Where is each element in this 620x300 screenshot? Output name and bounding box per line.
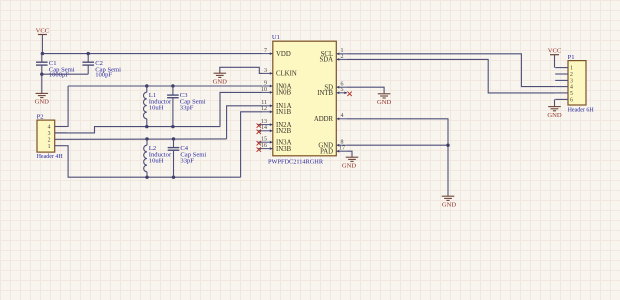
U1 pin 4 ADDR [314, 113, 346, 123]
svg-text:SDA: SDA [319, 57, 333, 64]
P1 pin 5 [555, 91, 573, 97]
ground GND (ADDR) [442, 196, 457, 208]
capacitor C1 [36, 54, 75, 79]
U1 pin 12 IN1B [261, 106, 292, 116]
svg-text:1: 1 [570, 66, 573, 72]
wire VCC rail to VDD pin 7 [42, 53, 262, 55]
svg-text:2: 2 [48, 137, 51, 143]
svg-text:16: 16 [261, 143, 267, 149]
no-connect X pin 13 [257, 123, 261, 127]
no-connect X pin 14 [257, 130, 261, 134]
U1 pin 13 IN2A [258, 119, 291, 129]
svg-text:PAD: PAD [320, 149, 333, 156]
junction C3 top [171, 84, 174, 87]
svg-text:13: 13 [261, 119, 267, 125]
wire GND pin 8 to ADDR net [346, 144, 448, 146]
svg-text:IN0B: IN0B [276, 90, 292, 97]
svg-text:14: 14 [261, 125, 267, 131]
junction C4 bottom [172, 176, 175, 179]
wire tank2 top rail up to IN1A pin 11 [227, 106, 263, 139]
wire C1 junction to ground [41, 74, 43, 93]
wire SD to ground [346, 87, 384, 94]
svg-text:CLKIN: CLKIN [276, 71, 297, 78]
junction at C2 top [87, 52, 90, 55]
U1 pin 11 IN1A [261, 100, 291, 110]
svg-text:100pF: 100pF [95, 72, 112, 79]
P2 pin 1 [48, 144, 67, 150]
wire SCL to P1 pin 4 [346, 54, 555, 87]
svg-text:Header 6H: Header 6H [568, 108, 595, 114]
svg-text:5: 5 [570, 91, 573, 97]
ground GND (CLKIN) [213, 73, 228, 85]
junction C3 bottom [171, 125, 174, 128]
capacitor C4 [168, 139, 207, 177]
svg-text:33pF: 33pF [180, 105, 194, 112]
P1 pin 6 [555, 98, 573, 104]
inductor L2 [144, 139, 172, 177]
svg-text:IN2B: IN2B [276, 128, 292, 135]
svg-text:10uH: 10uH [149, 105, 164, 112]
svg-text:1000pF: 1000pF [49, 72, 69, 79]
wire C1-C2 bottom [42, 73, 88, 75]
svg-text:P2: P2 [37, 114, 44, 121]
junction L2 bottom [145, 176, 148, 179]
wire P2 pin4 up to tank1 top rail [67, 86, 68, 127]
svg-text:U1: U1 [272, 34, 280, 41]
P2 pin 4 [48, 125, 67, 131]
junction C4 top [172, 137, 175, 140]
wire P1 pin6 to ground [554, 99, 556, 106]
svg-text:6: 6 [570, 98, 573, 104]
power symbol VCC (right) [548, 48, 562, 68]
svg-text:4: 4 [48, 125, 51, 131]
svg-text:GND: GND [377, 99, 392, 106]
U1 pin 15 IN3A [258, 137, 291, 147]
ground GND (SD) [377, 94, 392, 106]
U1 pin 6 SD [324, 82, 346, 92]
svg-text:GND: GND [342, 163, 357, 170]
svg-text:ADDR: ADDR [314, 116, 334, 123]
svg-text:IN1B: IN1B [276, 109, 292, 116]
svg-text:4: 4 [341, 113, 344, 119]
P1 pin 2 [555, 72, 573, 78]
capacitor C2 [82, 54, 121, 79]
P1 pin 4 [555, 85, 573, 91]
svg-text:3: 3 [264, 68, 267, 74]
U1 pin 1 SCL [321, 48, 347, 58]
wire tank1 bottom rail up to IN0B pin 10 [220, 92, 263, 126]
inductor L1 [143, 86, 171, 127]
svg-text:GND: GND [442, 202, 457, 209]
P1 pin 3 [555, 79, 573, 85]
U1 pin 3 CLKIN [263, 68, 297, 78]
svg-text:3: 3 [48, 131, 51, 137]
junction ADDR/GND net [446, 144, 449, 147]
wire tank2 bottom rail up to IN1B pin 12 [241, 112, 263, 177]
U1 pin 16 IN3B [258, 143, 291, 153]
no-connect X pin 5 INTB [344, 91, 347, 94]
svg-text:VCC: VCC [36, 27, 50, 34]
U1 pin 10 IN0B [261, 87, 292, 97]
wire tank1 top rail to IN0A pin 9 [68, 85, 263, 87]
svg-text:10uH: 10uH [149, 157, 164, 164]
svg-text:7: 7 [264, 48, 267, 54]
U1 pin 5 INTB [317, 87, 347, 97]
svg-text:VCC: VCC [548, 48, 562, 55]
op-amp U1 body [268, 34, 336, 165]
svg-text:17: 17 [339, 146, 345, 152]
svg-text:33pF: 33pF [180, 157, 194, 164]
svg-text:VDD: VDD [276, 51, 291, 58]
svg-text:3: 3 [570, 79, 573, 85]
svg-text:2: 2 [570, 72, 573, 78]
junction at C1 bottom [40, 73, 43, 76]
U1 pin 14 IN2B [258, 125, 291, 135]
junction L2 top [145, 137, 148, 140]
U1 pin 17 PAD [320, 146, 346, 156]
U1 pin 2 SDA [319, 54, 346, 64]
svg-text:IN3B: IN3B [276, 146, 292, 153]
svg-text:GND: GND [547, 112, 562, 119]
svg-text:5: 5 [341, 87, 344, 93]
header P1 [568, 54, 595, 114]
ground GND (below C1) [35, 93, 50, 105]
svg-text:GND: GND [35, 99, 50, 106]
no-connect X pin 15 [257, 141, 261, 145]
wire ADDR to ground [346, 119, 448, 196]
wire P2 pin3 to tank1 bottom rail [55, 127, 220, 133]
capacitor C3 [167, 86, 206, 127]
svg-text:15: 15 [261, 137, 267, 143]
P2 pin 2 [48, 137, 67, 143]
svg-text:4: 4 [570, 85, 573, 91]
svg-text:1: 1 [48, 144, 51, 150]
wire P2 pin2 tank2 top rail [67, 138, 227, 140]
P2 pin 3 [48, 131, 67, 137]
P1 pin 1 [555, 66, 573, 72]
wire SDA to P1 pin 5 [346, 59, 555, 93]
junction at VCC/C1 [41, 52, 44, 55]
power symbol VCC (left) [36, 27, 50, 53]
svg-text:Header 4H: Header 4H [37, 154, 64, 160]
svg-text:GND: GND [213, 79, 228, 86]
ground GND (PAD) [342, 157, 358, 169]
junction L1 top [145, 84, 148, 87]
junction L1 bottom [145, 125, 148, 128]
svg-text:INTB: INTB [317, 90, 333, 97]
U1 pin 9 IN0A [263, 80, 292, 90]
U1 pin 7 VDD [263, 48, 291, 58]
svg-text:P1: P1 [568, 54, 575, 61]
wire CLKIN to ground [220, 67, 263, 73]
ground GND (P1) [547, 107, 562, 119]
svg-text:PWPFDC2114RGHR: PWPFDC2114RGHR [268, 159, 324, 166]
svg-text:10: 10 [261, 87, 267, 93]
svg-text:12: 12 [261, 106, 267, 112]
wire PAD to ground [346, 151, 352, 157]
no-connect X pin 16 [257, 147, 261, 151]
U1 pin 8 GND [318, 140, 346, 150]
svg-text:2: 2 [341, 54, 344, 60]
svg-text:9: 9 [264, 80, 267, 86]
header P2 [37, 114, 64, 160]
wire P2 pin1 down to tank2 bottom rail [67, 146, 241, 178]
